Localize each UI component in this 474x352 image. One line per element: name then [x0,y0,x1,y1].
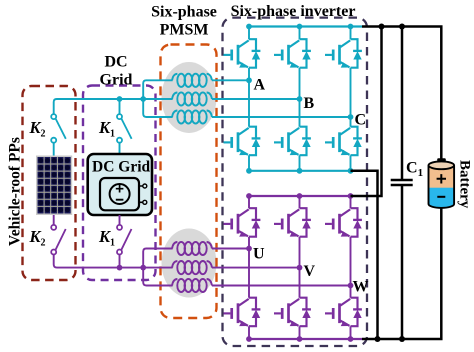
junction: node V [297,265,303,271]
wire: black bottom DC bus [362,208,441,340]
leg verticals: teal inverter leg A [248,27,250,171]
svg-text:U: U [253,246,265,263]
wire: coil A to node A [212,79,249,81]
stator winding set (bottom, gray) [162,229,217,298]
leg verticals: purple inverter leg W [350,196,352,339]
junction: purple node at K1 bottom [117,265,123,271]
junction: black node DC+ top [379,24,385,30]
switch K2 (bottom) [51,225,65,255]
wire: capacitor C1 bottom lead [401,186,404,339]
inductor coil phase U [172,242,212,255]
junction: teal dots bottom rail [246,168,353,174]
svg-text:B: B [304,95,315,112]
svg-text:A: A [254,77,266,94]
junction: purple node at branch [140,265,146,271]
wire: teal K1 to DC grid box [119,143,121,154]
svg-text:K2: K2 [29,227,46,249]
wire: teal DC bus from K2 to coils (row2) [54,99,173,114]
svg-text:DC: DC [104,54,127,71]
wire: DC+ vertical link [351,27,382,197]
svg-text:Battery: Battery [457,160,473,209]
switch K1 (top) [117,114,132,143]
DC Grid section dashed box [83,86,156,281]
svg-text:Six-phase: Six-phase [151,4,217,21]
wire: coil U to node U [212,248,249,250]
wire: purple DC grid box to K1 bottom [119,215,121,225]
svg-text:C1: C1 [406,160,423,180]
inductor coil phase C [172,110,212,123]
junction: black node C1 bottom [399,336,405,342]
svg-text:K1: K1 [98,118,115,140]
junction: black node DC- bottom [375,336,381,342]
wire: black top DC bus [362,27,441,161]
inductor coil phase B [172,92,212,105]
svg-text:K1: K1 [98,227,115,249]
IGBT cell C high-side [325,39,362,67]
IGBT cell W high-side [325,208,362,237]
Vehicle-roof PPs dashed box [23,86,76,280]
switch K2 (top) [51,114,66,143]
junction: node A [246,77,252,83]
svg-text:Vehicle-roof PPs: Vehicle-roof PPs [7,137,24,246]
svg-text:W: W [353,279,369,296]
junction: teal dots top rail [246,24,353,30]
svg-text:Grid: Grid [100,72,133,89]
wire: teal bottom rail of top inverter [249,170,351,172]
wire: purple bottom DC rail [249,338,362,340]
wire: capacitor C1 top lead [401,27,404,180]
stator winding set (top, gray) [162,62,217,133]
wire: purple K1 bottom down to bus [119,254,121,267]
IGBT cell V high-side [274,208,311,237]
wire: coil V to node V [212,267,300,269]
wire: teal branch to coil rows 1 and 3 [143,80,172,117]
wire: coil C to node C [212,116,351,118]
capacitor C1 plates [391,180,413,185]
IGBT cell U low-side [224,298,261,327]
junction: teal node at K1 tap [117,96,123,102]
wire: teal top DC rail [249,25,362,27]
inductor coil phase V [172,261,212,274]
wire: purple PV panel to K2 bottom [53,215,55,225]
IGBT cell A low-side [224,127,261,156]
svg-text:PMSM: PMSM [160,22,209,39]
svg-text:V: V [304,263,316,280]
junction: teal node at coil branch [140,96,146,102]
DC grid source box [88,154,152,215]
junction: black node C1 top [399,24,405,30]
wire: purple top rail of bottom inverter [249,195,351,197]
junction: node W [348,283,354,289]
IGBT cell W low-side [325,298,362,327]
wire: purple branch to coil rows 1 and 3 [143,249,172,286]
IGBT cell B high-side [274,39,311,67]
leg verticals: purple inverter leg V [299,196,301,339]
svg-text:C: C [355,112,367,129]
IGBT cell C low-side [325,127,362,156]
junction: node C [348,114,354,120]
Six-phase PMSM dashed box [161,45,217,319]
svg-text:K2: K2 [29,118,46,140]
IGBT cell B low-side [274,127,311,156]
leg verticals: purple inverter leg U [248,196,250,339]
wire: purple K2 bottom down to bus [54,254,173,267]
inductor coil phase A [172,74,212,87]
inductor coil phase W [172,279,212,292]
wire: teal K1 top stub [119,99,121,114]
wire: coil W to node W [212,285,351,287]
svg-text:DC Grid: DC Grid [92,159,151,176]
leg verticals: teal inverter leg C [350,27,352,171]
battery cell [429,158,455,208]
junction: purple dots bottom rail [246,336,353,342]
svg-text:Six-phase inverter: Six-phase inverter [231,3,356,20]
IGBT cell U high-side [224,208,261,237]
junction: purple dots top rail [246,193,353,199]
IGBT cell V low-side [274,298,311,327]
switch K1 (bottom) [117,225,132,255]
leg verticals: teal inverter leg B [299,27,301,171]
Six-phase inverter dashed box [223,18,368,346]
junction: node U [246,246,252,252]
IGBT cell A high-side [224,39,261,67]
junction: node B [297,96,303,102]
solar panel (PV array) [36,156,72,216]
wire: teal K2 to PV panel [53,143,55,156]
wire: coil B to node B [212,98,300,100]
wire: DC- vertical link [351,171,378,339]
